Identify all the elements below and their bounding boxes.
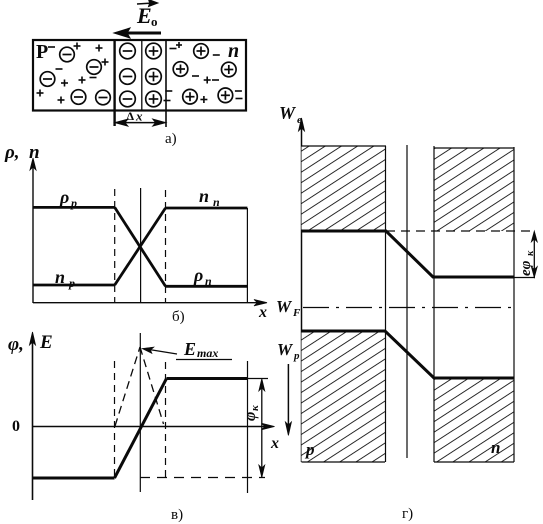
depletion negative ion column xyxy=(120,43,136,107)
svg-text:P: P xyxy=(36,41,48,63)
crossing diagonal down xyxy=(115,207,166,286)
center guide x=140.6 xyxy=(140,188,142,303)
e*phi_k label (rotated) xyxy=(518,250,536,276)
svg-text:n: n xyxy=(491,438,500,457)
svg-text:ρ: ρ xyxy=(59,187,69,207)
center guide x=140.3 xyxy=(139,333,141,492)
potential curve low segment xyxy=(33,477,115,480)
W_p down arrow xyxy=(285,364,291,435)
svg-text:в): в) xyxy=(171,507,183,523)
svg-text:Δ: Δ xyxy=(127,109,135,123)
svg-text:E: E xyxy=(39,332,53,353)
crossing diagonal up xyxy=(115,208,166,285)
junction guide x=385.5 xyxy=(385,146,387,462)
top-right hatched band xyxy=(434,148,514,231)
svg-text:W: W xyxy=(277,340,294,359)
svg-text:n: n xyxy=(55,267,65,287)
outer box of junction xyxy=(33,40,246,111)
svg-text:x: x xyxy=(270,435,279,452)
center guide x=407 xyxy=(406,145,408,458)
curve rho_n low level xyxy=(166,285,248,288)
E field dashed triangle left xyxy=(115,347,140,426)
svg-text:W: W xyxy=(279,103,297,123)
bottom-right hatched band xyxy=(434,378,514,462)
p region acceptor ions (circled minus) xyxy=(40,47,110,105)
dashed guide x=165.5 xyxy=(165,362,167,480)
phi_k label (rotated) xyxy=(242,404,261,421)
right boundary x=247.4 xyxy=(246,208,248,303)
svg-text:0: 0 xyxy=(12,418,20,435)
vertical axis xyxy=(30,158,36,303)
svg-text:x: x xyxy=(258,304,267,321)
depletion positive ion column xyxy=(146,43,162,107)
svg-text:E: E xyxy=(136,3,152,28)
svg-text:eφ: eφ xyxy=(518,260,534,276)
n region donor ions (circled plus) xyxy=(173,44,236,104)
junction guide x=434 xyxy=(433,146,435,462)
svg-text:W: W xyxy=(276,297,293,316)
svg-text:n: n xyxy=(213,195,220,209)
E field dashed triangle right xyxy=(140,347,164,424)
svg-text:n: n xyxy=(228,40,239,62)
svg-text:ρ, n: ρ, n xyxy=(4,142,40,163)
conduction band edge (thick) xyxy=(302,231,515,277)
svg-text:а): а) xyxy=(165,131,177,147)
vertical axis with arrow xyxy=(30,332,36,500)
x axis xyxy=(33,300,267,306)
phi_k dimension line xyxy=(259,379,265,478)
delta-x dimension xyxy=(115,119,166,126)
potential curve high segment xyxy=(167,377,248,380)
Fermi level dash-dot line xyxy=(303,307,513,309)
potential curve rise xyxy=(115,379,167,479)
dashed guide x=114.7 xyxy=(114,189,116,303)
svg-text:n: n xyxy=(199,186,209,206)
right boundary x=247.5 xyxy=(247,361,249,493)
svg-text:κ: κ xyxy=(525,250,536,256)
dashed guide x=165.5 xyxy=(165,190,167,303)
depletion boundary left (thick) xyxy=(113,40,115,126)
svg-text:n: n xyxy=(205,274,212,288)
svg-text:p: p xyxy=(70,196,77,210)
phi_k dimension extension xyxy=(248,378,269,380)
E0 vector arrow over label xyxy=(137,0,157,6)
bottom-left hatched band xyxy=(302,331,386,462)
svg-text:φ,: φ, xyxy=(8,334,24,355)
svg-text:max: max xyxy=(197,346,218,360)
valence band edge (thick) xyxy=(302,331,515,378)
svg-text:ρ: ρ xyxy=(193,265,203,285)
top-left hatched band xyxy=(302,146,387,231)
dashed guide x=114.5 xyxy=(114,361,116,478)
E0 field direction arrow xyxy=(114,28,161,38)
svg-text:E: E xyxy=(183,339,196,359)
svg-text:б): б) xyxy=(172,309,185,325)
extension at n-side conduction band xyxy=(514,277,535,279)
depletion boundary right xyxy=(165,40,167,127)
depletion middle divider xyxy=(141,40,143,110)
p region free holes (+) and electrons (-) xyxy=(37,43,109,104)
W axis xyxy=(299,118,305,462)
svg-text:φ: φ xyxy=(242,412,259,421)
curve n_p low level xyxy=(33,284,115,287)
svg-text:p: p xyxy=(68,276,75,290)
dashed level from p-side conduction band xyxy=(386,230,535,232)
svg-text:p: p xyxy=(293,350,300,362)
svg-text:o: o xyxy=(151,14,158,29)
svg-text:F: F xyxy=(292,307,301,319)
svg-text:x: x xyxy=(135,109,143,124)
right boundary x=514 xyxy=(513,147,515,462)
curve rho_p high level xyxy=(33,206,115,209)
svg-text:г): г) xyxy=(402,506,413,522)
svg-text:p: p xyxy=(304,440,315,459)
n region free electrons (-) and holes (+) xyxy=(164,42,243,103)
e*phi_k dimension line xyxy=(531,231,537,278)
curve n_n high level xyxy=(166,207,248,210)
dashed base line at low level xyxy=(140,477,265,479)
zero axis xyxy=(33,423,275,429)
